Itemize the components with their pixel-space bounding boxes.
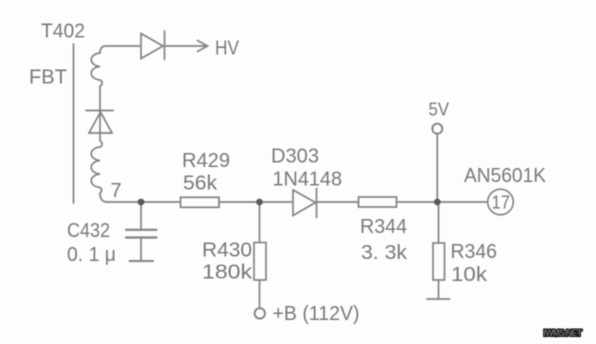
wire diode to HV arrow bbox=[166, 45, 207, 47]
wire pin7 to junction A bbox=[107, 201, 141, 203]
svg-text:180k: 180k bbox=[202, 262, 253, 284]
winding upper section bbox=[91, 53, 102, 86]
svg-text:C432: C432 bbox=[67, 220, 110, 242]
transformer T402 core bbox=[73, 44, 75, 203]
wire winding to internal diode bbox=[99, 86, 101, 140]
wire junction A to R429 bbox=[141, 201, 180, 203]
arrow head HV bbox=[198, 41, 208, 52]
svg-text:56k: 56k bbox=[183, 173, 218, 195]
svg-text:HV: HV bbox=[215, 38, 240, 60]
svg-text:17: 17 bbox=[492, 192, 511, 213]
svg-text:3. 3k: 3. 3k bbox=[361, 242, 408, 264]
svg-text:10k: 10k bbox=[451, 264, 488, 286]
capacitor C432 bbox=[140, 202, 142, 229]
svg-text:D303: D303 bbox=[271, 146, 319, 168]
svg-text:R429: R429 bbox=[182, 150, 230, 172]
wire junction C to R346 bbox=[438, 202, 440, 243]
diode D303 bbox=[293, 190, 316, 216]
diode (FBT internal damper) bbox=[86, 110, 113, 112]
svg-text:0. 1 μ: 0. 1 μ bbox=[67, 244, 116, 266]
junction C dot bbox=[434, 199, 441, 206]
IC AN5601K pin 17 circle bbox=[488, 189, 514, 215]
wire junction B to R430 bbox=[259, 202, 261, 243]
junction B dot bbox=[256, 199, 263, 206]
terminal 5V bbox=[432, 124, 442, 134]
resistor R430 body bbox=[254, 243, 266, 281]
ground bbox=[427, 298, 450, 300]
wire D303 to R344 bbox=[317, 201, 359, 203]
winding lower section bbox=[91, 141, 107, 202]
svg-text:5V: 5V bbox=[429, 100, 450, 120]
junction A dot bbox=[138, 199, 145, 206]
resistor R344 body bbox=[359, 197, 397, 207]
resistor R346 body bbox=[433, 243, 445, 280]
svg-text:R346: R346 bbox=[451, 241, 498, 263]
wire R430 to +B terminal bbox=[259, 280, 261, 308]
svg-text:R430: R430 bbox=[202, 240, 252, 262]
wire junction C to pin 17 bbox=[437, 201, 488, 203]
wire 5V to junction C bbox=[436, 134, 438, 202]
wire R429 to junction B bbox=[219, 201, 293, 203]
svg-text:IWMS.NET: IWMS.NET bbox=[544, 328, 583, 339]
svg-text:7: 7 bbox=[111, 180, 122, 202]
svg-text:1N4148: 1N4148 bbox=[273, 169, 343, 191]
svg-text:T402: T402 bbox=[41, 21, 85, 43]
svg-text:R344: R344 bbox=[360, 216, 407, 238]
wire coil top to HV diode bbox=[100, 46, 141, 53]
svg-text:FBT: FBT bbox=[29, 67, 67, 89]
svg-text:+B (112V): +B (112V) bbox=[273, 303, 360, 325]
HV rectifier diode bbox=[141, 34, 163, 59]
watermark IWMS.NET bbox=[544, 328, 583, 339]
wire R344 to junction C bbox=[397, 201, 438, 203]
resistor R429 body bbox=[181, 197, 220, 207]
svg-text:AN5601K: AN5601K bbox=[464, 165, 547, 187]
terminal +B (112V) bbox=[255, 308, 265, 318]
wire R346 to ground bbox=[438, 280, 440, 299]
